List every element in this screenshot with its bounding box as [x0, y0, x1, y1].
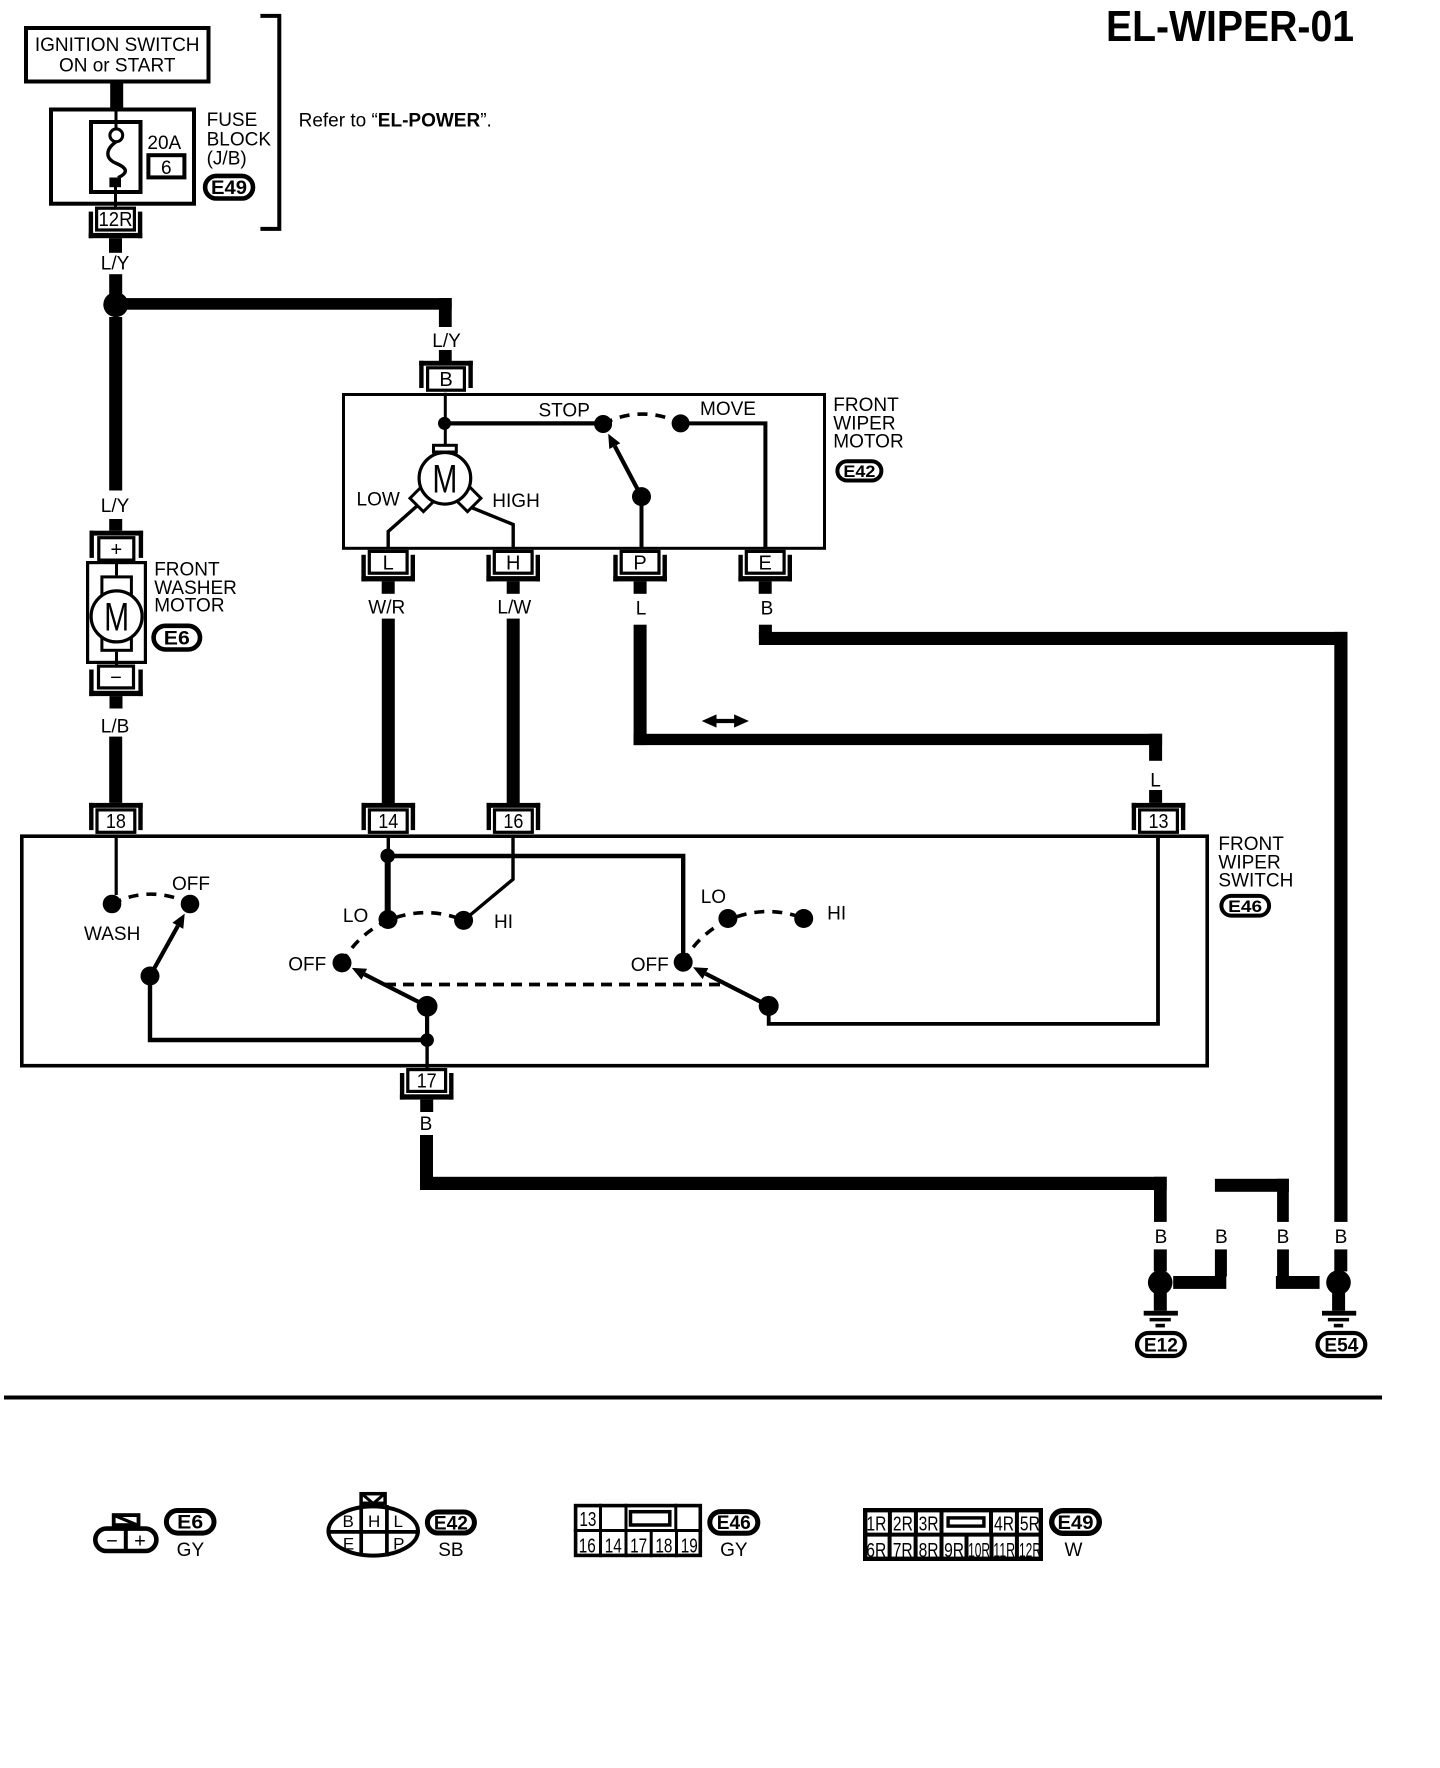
wire junction to STOP contact [445, 421, 604, 425]
svg-text:20A: 20A [147, 133, 181, 154]
legend connector E49 oval [1052, 1511, 1100, 1534]
connector E54 oval [1318, 1333, 1366, 1356]
svg-text:16: 16 [579, 1535, 596, 1557]
switch 1 arm with arrow [352, 968, 427, 1006]
symbol reversing double arrow [702, 714, 749, 727]
svg-text:Refer to “EL-POWER”.: Refer to “EL-POWER”. [299, 111, 492, 132]
wire junction to motor terminal [444, 423, 447, 444]
svg-text:SWITCH: SWITCH [1218, 871, 1293, 892]
dashed arc STOP to MOVE [603, 414, 681, 424]
bridge wire E12 to E54 [1173, 1179, 1319, 1289]
svg-text:M: M [104, 595, 129, 639]
wire stub above B connector [439, 350, 452, 362]
svg-text:OFF: OFF [288, 955, 326, 976]
ignition switch box [26, 28, 209, 82]
svg-text:9R: 9R [944, 1540, 964, 1562]
svg-text:B: B [761, 599, 774, 620]
legend connector E46 face [574, 1504, 702, 1558]
svg-text:H: H [506, 552, 520, 574]
svg-text:L/Y: L/Y [101, 496, 130, 517]
wire stub to E54 dot [1334, 1249, 1347, 1271]
washer switch arm with arrow [150, 914, 185, 976]
svg-text:FUSE: FUSE [207, 110, 258, 131]
wire stub above 16 [507, 780, 520, 803]
connector E12 oval [1137, 1333, 1185, 1356]
wire branch junction to wiper motor B [109, 298, 452, 327]
pin E of wiper motor [738, 551, 792, 593]
dashed arc OFF-LO-HI switch 2 [683, 912, 804, 963]
wire L/Y junction to washer motor [109, 317, 122, 491]
wire B from E pin to ground E54 [759, 625, 1348, 1222]
wire L/Y to junction [109, 274, 122, 299]
svg-text:L/W: L/W [497, 598, 531, 619]
switch 1 pivot [417, 996, 438, 1017]
svg-text:STOP: STOP [539, 401, 590, 422]
svg-text:6R: 6R [866, 1540, 886, 1562]
wire node to OFF2 [388, 856, 684, 953]
connector E49 oval [205, 176, 253, 199]
svg-text:LO: LO [343, 906, 368, 927]
svg-text:1R: 1R [866, 1514, 886, 1536]
svg-text:L/B: L/B [101, 716, 130, 737]
legend connector E6 oval [166, 1511, 214, 1534]
connector plus of washer motor [90, 531, 144, 561]
contact LO of switch 2 [718, 909, 737, 928]
fuse number 6 box [148, 155, 184, 179]
svg-text:13: 13 [1149, 811, 1169, 833]
connector 16 on wiper switch [487, 803, 541, 833]
pin L of wiper motor [361, 551, 415, 593]
contact LO of switch 1 [379, 910, 398, 929]
wire L/B to 18 [109, 737, 122, 803]
svg-text:P: P [633, 552, 646, 574]
ground node E12 [1148, 1270, 1173, 1295]
svg-text:18: 18 [106, 811, 126, 833]
svg-text:LO: LO [701, 887, 726, 908]
svg-text:4R: 4R [994, 1514, 1014, 1536]
connector minus of washer motor [89, 666, 143, 708]
svg-text:18: 18 [655, 1535, 672, 1557]
wire 14 into box [387, 836, 390, 850]
wire MOVE to E pin [681, 423, 766, 548]
svg-text:19: 19 [681, 1535, 698, 1557]
svg-text:E46: E46 [1228, 897, 1262, 916]
fuse block box [51, 110, 194, 204]
pin P of wiper motor [613, 551, 667, 593]
contact HI of switch 1 [454, 911, 473, 930]
front washer motor body [88, 561, 146, 665]
wire pivot 2 to 13 [769, 836, 1158, 1024]
connector 14 on wiper switch [362, 803, 416, 833]
svg-text:E49: E49 [211, 178, 247, 199]
wire 18 to WASH contact [115, 836, 118, 895]
wire pivot 1 down to node [425, 1006, 429, 1040]
connector E6 oval [154, 626, 200, 650]
svg-text:L: L [393, 1512, 402, 1531]
connector 13 on wiper switch [1132, 803, 1186, 833]
ground symbol E12 [1144, 1293, 1178, 1327]
svg-text:6: 6 [161, 158, 172, 179]
svg-text:SB: SB [438, 1540, 463, 1561]
label FUSE BLOCK (J/B) [207, 110, 272, 170]
washer switch pivot [141, 967, 160, 986]
svg-text:E54: E54 [1324, 1335, 1358, 1356]
svg-text:L: L [1150, 771, 1161, 792]
connector 18 on wiper switch [89, 803, 143, 833]
wire stub above 14 [382, 780, 395, 803]
svg-text:MOTOR: MOTOR [833, 432, 903, 453]
dashed link line between switch arms [385, 983, 726, 987]
svg-text:GY: GY [177, 1540, 205, 1561]
svg-text:14: 14 [605, 1535, 622, 1557]
svg-text:10R: 10R [968, 1540, 990, 1562]
connector E46 oval [1221, 896, 1269, 916]
svg-text:LOW: LOW [357, 490, 400, 511]
svg-text:ON or START: ON or START [59, 56, 176, 77]
svg-text:E6: E6 [164, 628, 190, 649]
svg-text:E42: E42 [434, 1513, 468, 1534]
legend connector E49 face [863, 1508, 1043, 1562]
fuse element [108, 108, 125, 207]
svg-text:+: + [110, 539, 122, 561]
park switch arm with arrow [608, 434, 641, 497]
label FRONT WIPER SWITCH [1218, 834, 1293, 892]
svg-text:16: 16 [503, 811, 523, 833]
wire pivot to P pin [640, 497, 644, 548]
contact OFF of washer switch [181, 895, 200, 914]
svg-text:E: E [759, 552, 772, 574]
svg-text:L: L [383, 552, 394, 574]
svg-text:E: E [343, 1534, 354, 1553]
connector 17 below wiper switch [400, 1070, 454, 1112]
svg-text:8R: 8R [919, 1540, 939, 1562]
svg-text:BLOCK: BLOCK [207, 130, 272, 151]
connector B of front wiper motor [419, 361, 473, 391]
node below 14 [380, 849, 395, 864]
svg-text:MOTOR: MOTOR [154, 596, 224, 617]
legend connector E42 face [327, 1494, 420, 1557]
front wiper switch box [22, 836, 1207, 1065]
junction node [103, 292, 128, 317]
wire B to junction inside motor [444, 393, 447, 423]
svg-text:B: B [1277, 1227, 1290, 1248]
legend connector E42 oval [427, 1512, 474, 1534]
svg-text:5R: 5R [1020, 1514, 1040, 1536]
wire stub above washer plus connector [109, 519, 122, 531]
wire L/Y stub below 12R [109, 250, 122, 253]
svg-text:12R: 12R [99, 209, 133, 231]
svg-text:17: 17 [630, 1535, 647, 1557]
svg-text:B: B [420, 1114, 433, 1135]
svg-text:GY: GY [720, 1540, 748, 1561]
svg-text:OFF: OFF [631, 955, 669, 976]
wire 16 to HI contact [466, 836, 513, 919]
legend connector E6 face [95, 1515, 156, 1552]
switch 2 arm with arrow [693, 967, 769, 1006]
contact MOVE [672, 414, 690, 432]
svg-text:HIGH: HIGH [492, 491, 540, 512]
svg-text:(J/B): (J/B) [207, 149, 247, 170]
svg-text:W: W [1065, 1540, 1083, 1561]
svg-text:7R: 7R [893, 1540, 913, 1562]
contact HI of switch 2 [794, 909, 813, 928]
legend connector E46 oval [710, 1512, 758, 1535]
separator line [4, 1396, 1382, 1400]
wire ignition switch to fuse block [110, 83, 123, 108]
ground node E54 [1326, 1270, 1351, 1295]
wire L/W from H pin to 16 [507, 619, 520, 780]
wire stub to E12 dot [1154, 1249, 1167, 1271]
svg-text:E12: E12 [1144, 1335, 1178, 1356]
wire LOW tab to L pin [388, 506, 417, 549]
svg-text:3R: 3R [919, 1514, 939, 1536]
fuse 20A inner box [91, 122, 141, 192]
svg-text:B: B [343, 1512, 354, 1531]
svg-text:17: 17 [417, 1071, 437, 1093]
svg-text:E46: E46 [717, 1513, 751, 1534]
svg-text:H: H [368, 1512, 380, 1531]
svg-text:OFF: OFF [172, 874, 210, 895]
svg-text:P: P [393, 1534, 404, 1553]
wire washer pivot to junction [150, 976, 427, 1040]
svg-text:−: − [106, 1531, 118, 1553]
svg-text:B: B [1335, 1227, 1348, 1248]
motor M of front wiper motor [410, 445, 481, 511]
dashed arc OFF-LO-HI switch 1 [342, 913, 464, 963]
pin H of wiper motor [486, 551, 540, 593]
svg-text:13: 13 [579, 1509, 596, 1531]
svg-text:L/Y: L/Y [432, 331, 461, 352]
label FRONT WASHER MOTOR [154, 559, 237, 616]
connector E42 oval [837, 461, 881, 481]
wire node to LO1 [385, 856, 391, 914]
node above 17 [420, 1033, 434, 1047]
wire B from 17 to ground E12 [420, 1135, 1167, 1222]
bracket refer note [260, 16, 279, 229]
svg-text:B: B [439, 369, 452, 391]
svg-text:E6: E6 [177, 1513, 203, 1534]
dashed arc WASH to OFF [112, 894, 190, 904]
svg-text:E49: E49 [1058, 1513, 1094, 1534]
ground symbol E54 [1322, 1293, 1356, 1327]
wire L from P pin to 13 [634, 625, 1163, 761]
svg-text:MOVE: MOVE [700, 399, 756, 420]
svg-text:2R: 2R [893, 1514, 913, 1536]
wire stub above 13 [1149, 790, 1162, 803]
svg-text:M: M [432, 457, 457, 501]
contact OFF of switch 1 [333, 953, 352, 972]
contact WASH [103, 895, 122, 914]
svg-text:W/R: W/R [368, 598, 405, 619]
wire HIGH tab to H pin [472, 508, 514, 549]
label FRONT WIPER MOTOR [833, 395, 903, 453]
wire W/R from L pin to 14 [382, 619, 395, 780]
svg-text:L: L [636, 599, 647, 620]
svg-text:11R: 11R [993, 1540, 1015, 1562]
svg-text:IGNITION SWITCH: IGNITION SWITCH [35, 35, 200, 56]
contact OFF of switch 2 [674, 953, 693, 972]
park switch pivot [632, 487, 651, 506]
connector 12R [89, 208, 143, 250]
svg-text:+: + [134, 1531, 146, 1553]
svg-text:L/Y: L/Y [101, 254, 130, 275]
svg-text:−: − [110, 667, 122, 689]
svg-text:HI: HI [494, 912, 513, 933]
svg-text:14: 14 [378, 811, 398, 833]
svg-text:B: B [1155, 1227, 1168, 1248]
contact STOP [594, 415, 612, 433]
wire node to 17 [425, 1040, 428, 1068]
front wiper motor box [344, 395, 825, 549]
svg-text:WASH: WASH [84, 924, 140, 945]
svg-text:HI: HI [827, 903, 846, 924]
svg-text:E42: E42 [843, 462, 875, 481]
svg-text:12R: 12R [1019, 1540, 1041, 1562]
svg-text:EL-WIPER-01: EL-WIPER-01 [1106, 2, 1354, 51]
node below B [438, 417, 451, 430]
switch 2 pivot [759, 996, 779, 1016]
svg-text:B: B [1215, 1227, 1228, 1248]
